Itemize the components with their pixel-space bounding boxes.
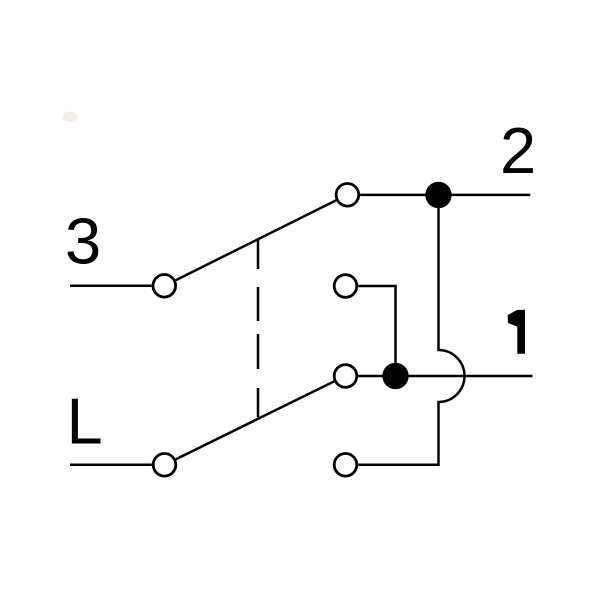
wire: terminal L lead	[70, 464, 152, 467]
svg-text:L: L	[67, 384, 103, 457]
node: upper throw contact (open circle)	[336, 184, 359, 207]
wire: contact through node to terminal 1	[358, 375, 532, 378]
node: lower contact (open circle)	[334, 454, 357, 477]
node: pole contact L (open circle)	[153, 454, 176, 477]
wire: switch lever (pole L to contact)	[176, 381, 334, 459]
node: middle contact on line 1 (open circle)	[334, 365, 357, 388]
svg-text:2: 2	[500, 114, 536, 187]
node: middle upper contact (open circle)	[334, 275, 357, 298]
wire: contact to terminal 2	[360, 194, 530, 197]
wire: dashed mechanical coupling link	[257, 239, 260, 418]
svg-text:3: 3	[65, 205, 101, 278]
wire: switch lever (pole 3 to contact)	[176, 200, 336, 280]
node: pole contact 3 (open circle)	[153, 275, 176, 298]
wire: upper middle contact to junction node 1	[358, 286, 395, 376]
node: junction dot on line 2	[425, 182, 451, 208]
wire: vertical from node 2 junction with hop over line 1, corner to lower contact	[358, 195, 464, 465]
wire: terminal 3 lead	[70, 285, 152, 288]
faint watermark smudge	[63, 112, 78, 123]
node: junction dot on line 1	[382, 363, 408, 389]
label 1	[508, 310, 525, 354]
